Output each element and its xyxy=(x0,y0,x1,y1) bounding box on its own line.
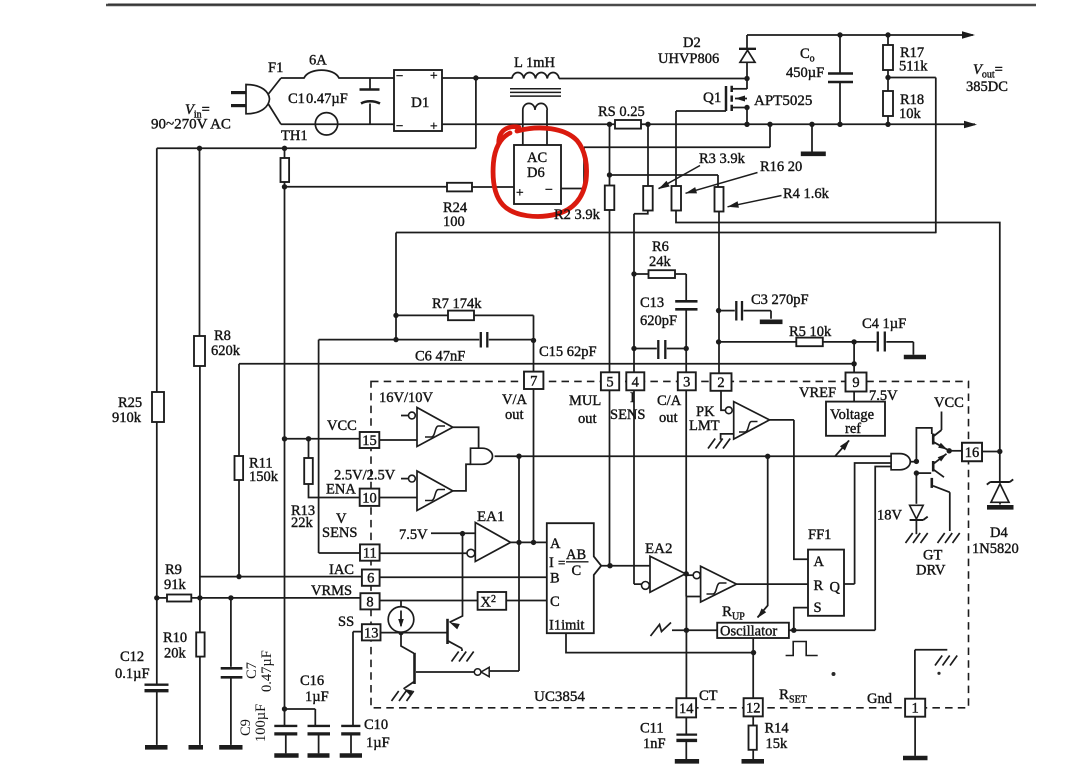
svg-text:910k: 910k xyxy=(112,410,142,426)
svg-text:SENS: SENS xyxy=(610,407,645,423)
svg-text:90~270V AC: 90~270V AC xyxy=(151,117,231,133)
svg-text:LMT: LMT xyxy=(689,418,720,434)
svg-text:14: 14 xyxy=(679,701,694,717)
svg-text:11: 11 xyxy=(363,546,377,562)
svg-text:0.47µF: 0.47µF xyxy=(259,650,275,692)
svg-text:7.5V: 7.5V xyxy=(869,388,898,404)
svg-text:CT: CT xyxy=(699,688,718,704)
svg-text:SENS: SENS xyxy=(322,525,357,541)
svg-text:5: 5 xyxy=(606,374,613,390)
svg-text:C: C xyxy=(550,594,560,610)
svg-text:150k: 150k xyxy=(249,469,279,485)
svg-text:8: 8 xyxy=(366,594,373,610)
svg-text:R7 174k: R7 174k xyxy=(432,296,482,312)
svg-text:C15 62pF: C15 62pF xyxy=(539,344,597,360)
svg-text:91k: 91k xyxy=(164,577,187,593)
svg-text:I: I xyxy=(630,390,635,406)
svg-text:R25: R25 xyxy=(118,395,142,411)
svg-text:7.5V: 7.5V xyxy=(399,527,428,543)
svg-text:13: 13 xyxy=(364,625,379,641)
svg-text:1µF: 1µF xyxy=(305,689,329,705)
svg-text:12: 12 xyxy=(746,700,761,716)
svg-text:10: 10 xyxy=(362,490,377,506)
svg-text:−: − xyxy=(545,183,553,198)
svg-text:+: + xyxy=(430,68,438,83)
svg-text:A: A xyxy=(814,554,825,570)
svg-text:C/A: C/A xyxy=(657,393,682,409)
svg-text:D1: D1 xyxy=(411,95,429,111)
svg-text:100µF: 100µF xyxy=(253,704,269,742)
svg-text:R: R xyxy=(814,578,824,594)
svg-text:R5 10k: R5 10k xyxy=(789,324,832,340)
svg-text:0.47µF: 0.47µF xyxy=(306,91,348,107)
svg-text:6: 6 xyxy=(367,571,374,587)
svg-text:B: B xyxy=(550,571,560,587)
svg-text:24k: 24k xyxy=(649,254,672,270)
svg-text:R9: R9 xyxy=(165,562,182,578)
svg-text:C13: C13 xyxy=(640,295,664,311)
svg-text:1nF: 1nF xyxy=(643,736,666,752)
svg-text:C9: C9 xyxy=(238,719,254,736)
svg-text:VREF: VREF xyxy=(799,385,836,401)
svg-text:V/A: V/A xyxy=(502,392,528,408)
svg-text:FF1: FF1 xyxy=(808,527,831,543)
svg-text:+: + xyxy=(516,185,524,200)
svg-text:15: 15 xyxy=(362,433,377,449)
svg-text:7: 7 xyxy=(530,373,537,389)
svg-text:R14: R14 xyxy=(765,721,790,737)
svg-text:C11: C11 xyxy=(640,721,664,737)
svg-text:100: 100 xyxy=(443,214,465,230)
svg-text:C4 1µF: C4 1µF xyxy=(862,316,906,332)
svg-text:UHVP806: UHVP806 xyxy=(658,51,719,67)
svg-text:R2 3.9k: R2 3.9k xyxy=(554,207,601,223)
svg-text:EA1: EA1 xyxy=(477,509,505,525)
svg-text:VCC: VCC xyxy=(327,418,357,434)
svg-text:AC: AC xyxy=(527,150,547,166)
svg-text:Q: Q xyxy=(830,580,841,596)
svg-text:AB: AB xyxy=(566,547,586,563)
svg-text:9: 9 xyxy=(852,375,859,391)
svg-text:ref: ref xyxy=(845,421,861,437)
svg-text:C1: C1 xyxy=(288,91,305,107)
svg-text:=: = xyxy=(558,555,565,570)
svg-text:F1: F1 xyxy=(268,60,283,76)
svg-text:1µF: 1µF xyxy=(366,735,390,751)
svg-text:385DC: 385DC xyxy=(966,79,1008,95)
svg-text:ENA: ENA xyxy=(326,482,356,498)
svg-text:C3 270pF: C3 270pF xyxy=(751,292,809,308)
svg-text:+: + xyxy=(430,119,438,134)
svg-text:IAC: IAC xyxy=(329,562,354,578)
svg-text:C6 47nF: C6 47nF xyxy=(415,349,465,365)
svg-text:Oscillator: Oscillator xyxy=(720,623,777,639)
svg-text:I1imit: I1imit xyxy=(549,618,584,634)
svg-text:R3 3.9k: R3 3.9k xyxy=(699,151,746,167)
svg-text:1: 1 xyxy=(912,701,919,717)
svg-text:UC3854: UC3854 xyxy=(534,689,585,705)
svg-text:VRMS: VRMS xyxy=(311,583,352,599)
svg-text:2: 2 xyxy=(717,375,724,391)
svg-text:out: out xyxy=(578,411,597,427)
svg-text:1N5820: 1N5820 xyxy=(972,541,1019,557)
svg-text:R6: R6 xyxy=(652,239,669,255)
svg-text:DRV: DRV xyxy=(916,563,946,579)
svg-text:450µF: 450µF xyxy=(786,65,824,81)
svg-text:C16: C16 xyxy=(300,673,324,689)
svg-text:GT: GT xyxy=(923,548,942,564)
svg-text:3: 3 xyxy=(683,374,690,390)
svg-text:6A: 6A xyxy=(309,53,327,69)
svg-text:18V: 18V xyxy=(877,508,903,524)
svg-text:D6: D6 xyxy=(527,165,545,181)
svg-text:15k: 15k xyxy=(766,736,789,752)
svg-text:L 1mH: L 1mH xyxy=(514,55,555,71)
svg-text:620pF: 620pF xyxy=(640,313,677,329)
svg-text:VCC: VCC xyxy=(934,395,964,411)
svg-text:D4: D4 xyxy=(990,525,1008,541)
svg-text:SS: SS xyxy=(338,614,354,630)
svg-text:TH1: TH1 xyxy=(281,128,308,144)
svg-text:S: S xyxy=(814,600,822,616)
svg-text:D2: D2 xyxy=(683,35,701,51)
svg-text:R8: R8 xyxy=(214,328,231,344)
svg-text:16: 16 xyxy=(965,445,980,461)
svg-text:out: out xyxy=(505,407,524,423)
svg-text:4: 4 xyxy=(632,374,640,390)
svg-text:R16 20: R16 20 xyxy=(760,159,802,175)
svg-text:20k: 20k xyxy=(164,646,187,662)
svg-text:R10: R10 xyxy=(163,630,187,646)
svg-text:out: out xyxy=(659,410,678,426)
svg-text:0.1µF: 0.1µF xyxy=(115,666,150,682)
svg-text:22k: 22k xyxy=(291,515,314,531)
svg-text:I: I xyxy=(549,555,554,571)
svg-text:C7: C7 xyxy=(244,662,260,679)
svg-text:Gnd: Gnd xyxy=(867,691,893,707)
svg-text:16V/10V: 16V/10V xyxy=(379,390,434,406)
svg-text:C10: C10 xyxy=(364,717,388,733)
svg-text:Q1: Q1 xyxy=(703,90,721,106)
svg-text:A: A xyxy=(550,536,561,552)
svg-text:−: − xyxy=(396,68,403,83)
svg-text:R4 1.6k: R4 1.6k xyxy=(783,186,830,202)
svg-text:511k: 511k xyxy=(899,59,928,75)
svg-text:−: − xyxy=(396,118,403,133)
svg-text:EA2: EA2 xyxy=(645,541,673,557)
svg-text:C12: C12 xyxy=(120,649,144,665)
svg-text:620k: 620k xyxy=(211,343,241,359)
svg-text:MUL: MUL xyxy=(569,393,601,409)
svg-text:C: C xyxy=(572,563,582,579)
svg-text:RS 0.25: RS 0.25 xyxy=(598,104,645,120)
svg-text:10k: 10k xyxy=(899,106,922,122)
svg-text:APT5025: APT5025 xyxy=(754,93,812,109)
